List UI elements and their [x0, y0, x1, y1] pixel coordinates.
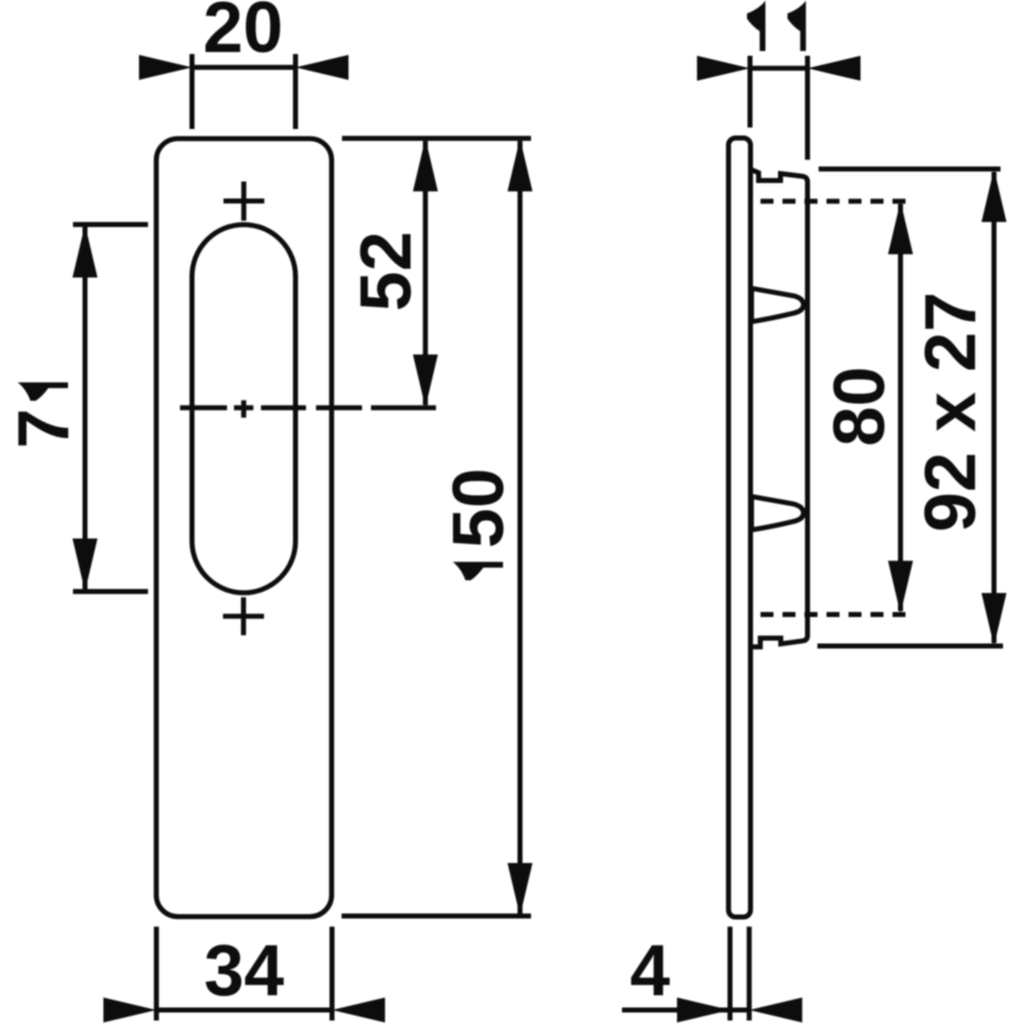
dimension 4: left arrowhead — [677, 998, 730, 1023]
dimension 11: left arrowhead — [697, 56, 750, 81]
dimension 20: left arrowhead — [139, 55, 192, 80]
dimension 52: dimension line — [423, 141, 428, 405]
svg-text:4: 4 — [630, 931, 670, 1011]
bottom screw cross — [223, 597, 264, 635]
spring clip top — [752, 288, 804, 321]
dimension 71: top arrowhead — [73, 225, 98, 278]
dimension 4: right arrowhead — [749, 998, 802, 1023]
svg-text:80: 80 — [820, 366, 900, 446]
dimension 150: label (rotated) — [439, 468, 519, 580]
dimension 71: top extension line — [73, 222, 148, 227]
dimension 34: extension lines — [156, 927, 332, 1021]
dimension 11: right arrowhead — [808, 56, 861, 81]
dimension 20: right arrowhead — [296, 55, 349, 80]
dimension 11: label — [747, 1, 806, 51]
dimension 20: extension lines — [192, 54, 296, 129]
dimension 92x27: top extension line — [819, 167, 1001, 172]
dimension 71: bottom extension line — [73, 589, 148, 594]
dimension 92x27: bottom arrowhead — [982, 593, 1007, 646]
dimension 52: top arrowhead — [413, 138, 438, 191]
dimension 150: bottom arrowhead — [508, 863, 533, 916]
svg-text:92 x 27: 92 x 27 — [911, 292, 991, 532]
dimension 150: dimension line — [518, 141, 523, 914]
center small cross — [234, 400, 253, 417]
svg-text:50: 50 — [439, 468, 519, 548]
svg-text:52: 52 — [347, 231, 427, 311]
dimension 4: extension lines — [730, 927, 749, 1021]
dimension 92x27: dimension line — [992, 172, 997, 643]
dashed reference line bottom (80) — [761, 612, 911, 617]
dimension 52: label (rotated) — [347, 231, 427, 311]
dimension 80: top arrowhead — [888, 201, 913, 254]
dimension 34: left arrowhead — [103, 998, 156, 1023]
dimension 34: dimension line — [156, 1008, 332, 1013]
dimension 71: label (rotated) — [4, 382, 84, 448]
dimension 4: dimension line with left tail — [622, 1008, 749, 1013]
svg-text:34: 34 — [204, 931, 284, 1011]
dimension 20: dimension line — [192, 65, 296, 70]
dimension 52: bottom arrowhead — [413, 355, 438, 408]
spring clip bottom — [752, 497, 804, 530]
dimension 11: dimension line — [750, 66, 808, 71]
dimension 92x27: bottom extension line — [817, 644, 1003, 649]
dimension 80: bottom arrowhead — [888, 561, 913, 614]
clip housing profile (side view) — [751, 169, 808, 647]
dimension 80: dimension line — [898, 204, 903, 611]
faceplate front view outline — [156, 139, 331, 917]
dimension 11: extension lines — [750, 56, 808, 160]
faceplate side view (thin plate) — [729, 138, 751, 917]
dimension 52/150: shared top extension line — [342, 136, 531, 141]
recess oval (front view) — [192, 225, 296, 593]
dimension 71: dimension line — [83, 227, 88, 589]
dimension 92x27: top arrowhead — [982, 169, 1007, 222]
dashed reference line top (80) — [761, 199, 910, 204]
dimension 80: label (rotated) — [820, 366, 900, 446]
dimension 34: right arrowhead — [332, 998, 385, 1023]
dimension 150: top arrowhead — [508, 138, 533, 191]
dimension 71: bottom arrowhead — [73, 539, 98, 592]
svg-text:7: 7 — [4, 408, 84, 448]
svg-text:20: 20 — [203, 0, 283, 68]
top screw cross — [224, 182, 265, 221]
dimension 150: bottom extension line — [342, 914, 531, 919]
horizontal centerline through recess center — [180, 405, 436, 410]
dimension 92x27: label (rotated) — [911, 292, 991, 532]
